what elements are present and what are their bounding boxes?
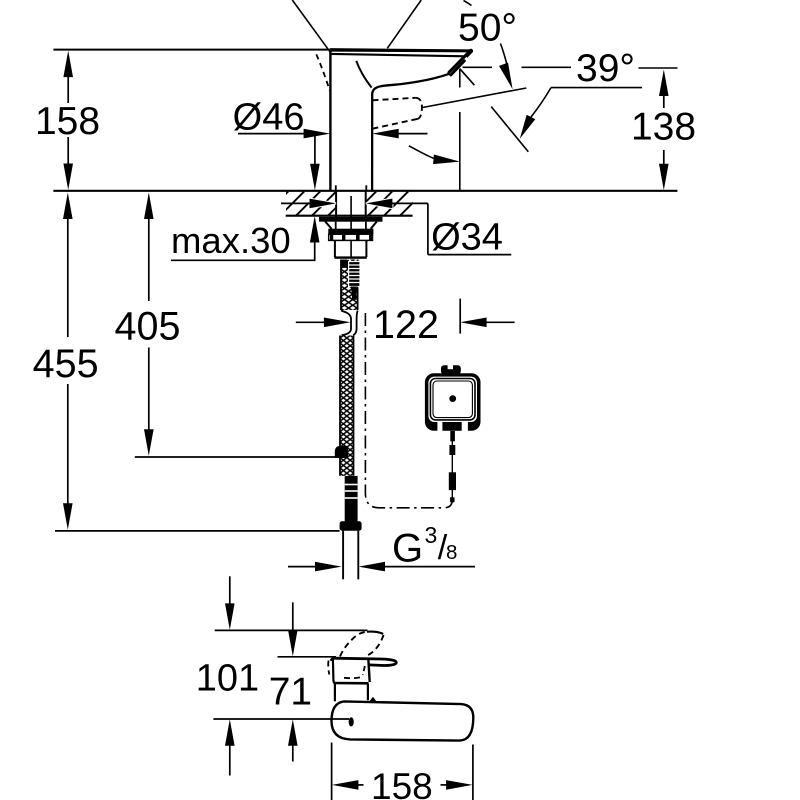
39 degree arrowhead: [520, 115, 536, 139]
braided hose upper section: [341, 260, 358, 311]
lever tip extension line left a: [463, 66, 493, 68]
hose jog left edge: [341, 311, 351, 336]
dimension 158 bottom right stub: [441, 784, 448, 786]
svg-text:455: 455: [33, 342, 99, 386]
hose adapter right block: [353, 261, 360, 267]
side view dashed lever right edge: [367, 635, 384, 656]
svg-text:max.30: max.30: [171, 220, 291, 261]
lever open axis line: [422, 88, 526, 108]
svg-text:50°: 50°: [458, 6, 517, 49]
spout underside curve: [372, 74, 449, 191]
extension line outlet ring: [278, 656, 337, 658]
dimension 158 top arrowhead: [63, 51, 73, 78]
svg-text:101: 101: [196, 658, 259, 700]
side view dashed lever left edge: [340, 632, 367, 657]
dimension 158 line lower: [67, 137, 69, 165]
dimension 158 bottom left extension: [331, 743, 333, 800]
diameter 46 left arrowhead: [304, 129, 331, 139]
dimension 405 line lower: [148, 348, 150, 431]
dimension 122 extension line: [459, 299, 461, 334]
counter hatching left: [264, 192, 352, 216]
svg-text:39°: 39°: [576, 47, 635, 90]
pull cord lower grip: [449, 472, 456, 490]
dimension 158 line upper: [67, 76, 69, 103]
outlet ring capsule: [334, 658, 397, 665]
control box center dot: [449, 395, 456, 402]
pull cord bead: [449, 445, 455, 455]
knurl tick 4: [369, 234, 373, 240]
mounting hole left edge: [335, 191, 337, 217]
braided hose upper left rail: [340, 260, 342, 311]
dimension 138 line upper: [663, 95, 665, 108]
fitting slit 2: [345, 490, 358, 492]
G3/8 nut: [340, 521, 362, 530]
pull cord thin line: [451, 441, 453, 500]
svg-text:138: 138: [631, 106, 696, 149]
base tick left above counter: [335, 185, 337, 191]
lever axis line up-right: [387, 0, 421, 48]
control box innermost outline: [433, 381, 472, 418]
control box inner outline: [430, 379, 475, 420]
control box bottom notch right: [462, 422, 468, 432]
rod tip: [352, 295, 357, 300]
dimension 158 bottom right extension: [472, 745, 474, 800]
side view neck dashed right interior: [363, 666, 365, 675]
side view neck bottom: [334, 682, 369, 685]
max30 underline: [171, 259, 316, 261]
G3/8 left shaft: [288, 566, 316, 568]
aerator face stroke: [451, 61, 464, 75]
dashed lever up-position arc: [316, 54, 330, 90]
svg-text:405: 405: [115, 305, 181, 349]
assembly centerline: [350, 196, 352, 257]
dimension 158 bottom right arrowhead: [446, 780, 473, 790]
dimension 71 up arrowhead: [288, 719, 298, 746]
lever band lower line: [331, 54, 467, 56]
dimension 455 line lower: [67, 384, 69, 504]
braided hose lower section: [340, 336, 354, 476]
outlet vertical reference line upper: [459, 69, 461, 88]
control box inner white: [428, 377, 477, 422]
dimension 405 line upper: [148, 218, 150, 301]
hose jog right edge: [353, 311, 357, 336]
fitting slit 1: [345, 484, 358, 486]
control box bottom notch left: [437, 422, 442, 432]
dimension 122 left arrowhead: [324, 318, 351, 328]
dimension 122 right arrowhead: [460, 318, 487, 328]
svg-text:3: 3: [425, 522, 438, 548]
neck inner curve: [356, 61, 371, 88]
funnel right side: [371, 222, 377, 229]
dimension 455 bottom arrowhead: [63, 503, 73, 530]
svg-text:158: 158: [35, 100, 100, 143]
diameter 46 right arrowhead: [372, 129, 399, 139]
control box top tab notch: [448, 364, 453, 369]
dimension 71 lower shaft: [292, 745, 294, 762]
dimension 122 left shaft: [296, 321, 325, 323]
funnel left side: [325, 222, 331, 229]
svg-text:8: 8: [446, 541, 457, 564]
39 degree leader horizontal: [551, 87, 642, 89]
G3/8 right shaft: [384, 566, 475, 568]
knurl band outline: [329, 234, 373, 240]
flange washer: [319, 217, 383, 222]
diameter 46 right shaft: [398, 133, 428, 135]
svg-text:158: 158: [371, 766, 433, 800]
svg-text:Ø34: Ø34: [431, 216, 503, 258]
dimension 158 bottom left arrowhead: [332, 780, 359, 790]
shank left line: [335, 222, 337, 229]
dimension 101 down arrowhead: [225, 603, 235, 630]
lever swing arc: [409, 146, 437, 160]
svg-text:71: 71: [269, 670, 312, 713]
max30 lower shaft: [314, 242, 316, 261]
rod taper: [351, 287, 359, 296]
dimension 138 bottom arrowhead: [659, 164, 669, 191]
braided hose upper right rail: [357, 260, 359, 311]
dimension 158 bottom arrowhead: [63, 164, 73, 191]
svg-text:122: 122: [373, 303, 439, 347]
side view neck left edge: [333, 659, 334, 683]
svg-text:Ø46: Ø46: [233, 96, 305, 138]
diameter 34 right arrowhead: [366, 199, 393, 209]
lever top band: [330, 48, 472, 52]
39 degree steep line upper: [460, 69, 475, 85]
dimension 101 lower shaft: [229, 745, 231, 776]
diameter 46 underline: [238, 133, 305, 135]
base tick right above counter: [365, 185, 367, 191]
dimension 405 extension line: [135, 456, 340, 458]
dimension 455 top arrowhead: [63, 193, 73, 220]
dimension 71 down arrowhead: [288, 630, 298, 657]
svg-text:G: G: [392, 527, 423, 571]
fitting slit 3: [345, 497, 358, 499]
diameter 34 left arrowhead: [310, 199, 337, 209]
dimension 101 up arrowhead: [225, 719, 235, 746]
hose clip: [335, 446, 348, 458]
max30 down arrowhead: [310, 164, 320, 191]
nipple tube right: [357, 531, 359, 580]
counter bottom line: [286, 215, 413, 217]
50 degree arc lower segment: [501, 44, 508, 67]
braided hose lower left rail: [339, 336, 341, 476]
50 degree arc upper segment: [464, 1, 472, 6]
knurl tick 2: [342, 234, 345, 240]
side view neck dashed interior: [344, 677, 364, 679]
dimension 101 upper shaft: [229, 576, 231, 604]
dimension 405 bottom arrowhead: [144, 429, 154, 456]
dashed lever closed position bottom: [373, 119, 418, 129]
threaded mounting rod: [349, 262, 360, 287]
dimension 138 line lower: [663, 150, 665, 165]
side view lever tip solid arc: [367, 632, 383, 634]
side view neck left dashed arc: [328, 661, 329, 675]
knurled nut top band: [328, 229, 373, 235]
counter top surface line: [53, 190, 677, 192]
diameter 34 leader riser: [427, 203, 429, 254]
pull cord upper rod: [450, 431, 455, 441]
braided hose lower right rail: [353, 336, 355, 476]
aerator face white gap: [450, 57, 467, 74]
side view hinge wedge: [369, 697, 376, 702]
control box outer body: [425, 373, 481, 431]
hose end fitting: [345, 476, 358, 522]
knurl tick 1: [330, 234, 333, 240]
max30 upper shaft: [314, 135, 316, 166]
dimension 122 right shaft: [486, 321, 515, 323]
faucet body left edge: [329, 51, 331, 191]
pull cord end: [450, 497, 454, 502]
extension line spout top: [215, 629, 368, 631]
mounting hole right edge: [365, 191, 367, 217]
dimension 158 bottom left stub: [357, 784, 363, 786]
label G 3/8: [392, 522, 457, 571]
side view lever body rounded: [332, 701, 474, 740]
housing bottom bar: [334, 256, 366, 258]
housing right: [365, 240, 367, 257]
shank right line: [365, 222, 367, 229]
G3/8 left arrowhead: [315, 562, 342, 572]
diameter 34 left shaft: [281, 202, 311, 204]
side view lever dot: [349, 717, 354, 726]
lever axis line up-left: [292, 0, 330, 52]
lever swing arrowhead: [433, 155, 460, 165]
lever tip extension line left b: [522, 66, 572, 68]
dashed lever closed position cap: [416, 98, 422, 119]
diameter 34 underline: [428, 254, 511, 256]
39 degree leader arc: [531, 88, 551, 117]
extension line lever axis: [213, 718, 349, 720]
outlet ring left hook: [331, 658, 334, 661]
side view neck right edge: [368, 659, 369, 683]
dimension 138 top arrowhead: [659, 70, 669, 97]
side view base left edge: [334, 684, 336, 702]
max30 up arrowhead: [310, 216, 320, 243]
dimension 455 line upper: [67, 218, 69, 337]
50 degree arc arrowhead: [499, 63, 513, 90]
diameter 34 right shaft: [391, 202, 428, 204]
nipple tube left: [342, 531, 344, 580]
outlet vertical reference line lower: [459, 112, 461, 190]
G3/8 right arrowhead: [359, 562, 386, 572]
lever tip extension line right: [639, 67, 678, 69]
hose adapter left block: [341, 260, 349, 268]
control box top tab: [441, 365, 461, 374]
39 degree steep line lower: [491, 107, 528, 152]
top reference line (lever top level): [53, 49, 330, 51]
dimension 455 extension line: [55, 530, 340, 532]
side view base right edge: [367, 684, 369, 701]
lever tip front edge: [450, 51, 471, 73]
counter hatching right: [352, 192, 424, 216]
dashed lever closed position top: [373, 98, 416, 101]
dimension 405 top arrowhead: [144, 193, 154, 220]
second hose dash-dot centerline: [365, 313, 452, 508]
knurl tick 3: [356, 234, 360, 240]
dimension 71 upper shaft: [292, 602, 294, 630]
housing left: [334, 240, 336, 257]
